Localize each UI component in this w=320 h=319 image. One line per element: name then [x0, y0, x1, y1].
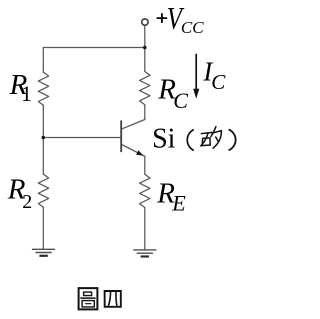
svg-text:CC: CC [181, 18, 204, 37]
wire top horizontal [43, 47, 145, 49]
svg-text:C: C [211, 70, 226, 94]
ground (left, under R2) [32, 249, 55, 256]
caption CJK 四 (four) [105, 291, 121, 307]
label R1 [9, 69, 32, 106]
node junction: top rail meets VCC wire [143, 46, 147, 50]
resistor R1 [38, 72, 48, 105]
label RE [156, 178, 186, 216]
resistor R2 [38, 174, 48, 207]
label full-width close paren [229, 130, 236, 151]
wire VCC terminal to top rail [144, 26, 146, 72]
svg-text:C: C [173, 88, 188, 113]
label full-width open paren [187, 130, 194, 151]
caption CJK 圖 (figure) [79, 288, 98, 309]
transistor Q1 collector lead [122, 120, 145, 129]
transistor Q1 base bar [120, 120, 122, 152]
node junction: R1-R2 divider to base [42, 136, 46, 140]
wire left lower segment [42, 207, 44, 249]
label IC [202, 56, 226, 93]
arrow IC (current direction) [193, 54, 199, 99]
label RC [157, 73, 188, 113]
resistor RC [140, 72, 150, 105]
transistor Q1 emitter arrowhead [136, 150, 144, 155]
wire base horizontal [43, 137, 120, 139]
wire left upper segment [42, 48, 44, 73]
wire emitter vertical [144, 156, 146, 174]
label R2 [7, 173, 32, 213]
node: VCC terminal circle [142, 19, 148, 25]
wire RE to ground [144, 208, 146, 250]
resistor RE [140, 174, 150, 207]
svg-text:2: 2 [22, 191, 32, 213]
label CJK char 矽 (silicon) [201, 127, 222, 149]
svg-text:1: 1 [21, 81, 32, 106]
transistor Q1 emitter lead [122, 145, 145, 157]
ground (right, under RE) [133, 250, 156, 257]
wire left middle segment [42, 105, 44, 174]
svg-text:E: E [171, 191, 186, 216]
label +VCC [157, 1, 205, 37]
svg-text:Si: Si [152, 124, 176, 155]
wire collector vertical [144, 105, 146, 120]
